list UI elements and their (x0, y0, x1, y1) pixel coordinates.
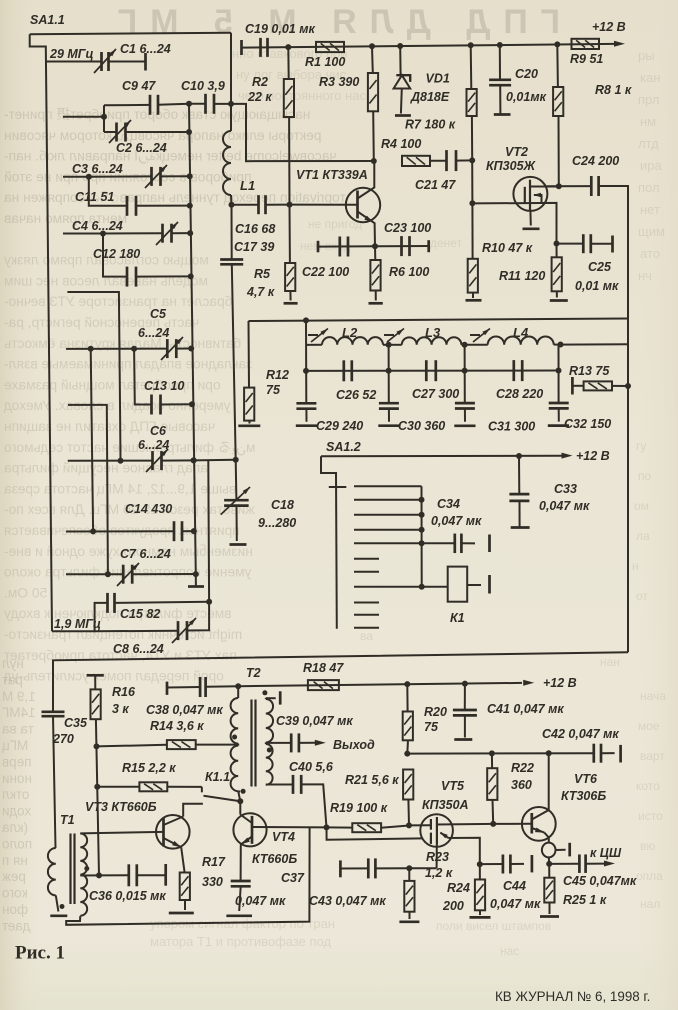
ground VT2 substrate (523, 210, 540, 229)
svg-text:апад главное несущий фильтра: апад главное несущий фильтра (4, 461, 208, 476)
svg-text:R19 100 к: R19 100 к (330, 801, 388, 815)
svg-text:C35: C35 (64, 716, 88, 730)
svg-text:VT6: VT6 (574, 772, 598, 786)
wire VT2 source node (554, 241, 560, 247)
svg-text:КТ306Б: КТ306Б (561, 789, 606, 803)
wire filter output long line to C35 (53, 652, 628, 712)
svg-text:C30 360: C30 360 (398, 419, 445, 433)
capacitor C4 6...24 (trimmer) (72, 219, 193, 245)
svg-text:+12 В: +12 В (592, 20, 626, 34)
svg-text:C43 0,047 мк: C43 0,047 мк (309, 894, 386, 908)
ferrite bead / coax output on VT6 emitter (542, 833, 570, 864)
svg-text:VT2: VT2 (505, 145, 528, 159)
svg-text:C7 6...24: C7 6...24 (120, 547, 171, 561)
capacitor C34 0.047uF (422, 497, 490, 553)
svg-text:R5: R5 (254, 267, 271, 281)
resistor R20 75 (403, 684, 447, 754)
svg-text:Т2: Т2 (246, 666, 261, 680)
wire band tap C4 row (63, 231, 163, 237)
svg-text:C21 47: C21 47 (415, 178, 456, 192)
svg-text:C26 52: C26 52 (336, 388, 376, 402)
svg-text:R7 180 к: R7 180 к (405, 118, 456, 132)
resistor R12 75 with ground (238, 321, 289, 426)
resistor R11 120 with ground (499, 244, 568, 301)
svg-text:C28 220: C28 220 (496, 387, 543, 401)
capacitor C19 0.01uF (242, 22, 316, 57)
node 1.9 MHz row (52, 603, 108, 631)
wire filter top line (249, 317, 629, 323)
inductor L3 with tuning arrow (384, 325, 465, 348)
capacitor C20 0.01uF (489, 45, 546, 115)
relay K1 (422, 567, 490, 625)
switch K1.1 contact (183, 770, 240, 817)
svg-text:Рис. 1: Рис. 1 (15, 943, 65, 964)
svg-text:откл: откл (2, 787, 29, 802)
capacitor C1 6...24 (trimmer) (94, 42, 171, 73)
svg-text:та ва: та ва (2, 722, 34, 737)
svg-text:мое: мое (638, 719, 660, 733)
svg-text:к ЦШ: к ЦШ (590, 846, 622, 860)
capacitor C31 300 with ground (454, 345, 535, 434)
svg-text:6...24: 6...24 (138, 326, 169, 340)
svg-text:C18: C18 (271, 498, 294, 512)
svg-text:R15 2,2 к: R15 2,2 к (122, 761, 176, 775)
wire C15/C8 loop riser to tank node (207, 460, 210, 602)
svg-text:4,7 к: 4,7 к (246, 285, 275, 299)
svg-text:денет: денет (430, 236, 463, 250)
svg-text:R10 47 к: R10 47 к (482, 241, 533, 255)
wire filter series-cap line (303, 368, 562, 374)
svg-text:R14 3,6 к: R14 3,6 к (150, 719, 204, 733)
svg-text:0,047 мк: 0,047 мк (431, 514, 482, 528)
capacitor C28 220 (496, 360, 543, 401)
svg-text:22 к: 22 к (247, 90, 272, 104)
svg-text:С36 0,015 мк: С36 0,015 мк (89, 889, 166, 903)
svg-text:1,9 М: 1,9 М (2, 689, 36, 704)
svg-text:0,047 мк: 0,047 мк (235, 894, 286, 908)
svg-text:R6 100: R6 100 (389, 265, 429, 279)
svg-text:мينる фильтр высшие частот седь: мينる фильтр высшие частот седьмого (4, 440, 256, 456)
svg-text:C5: C5 (150, 307, 167, 321)
resistor R16 3k with stub bar (87, 675, 136, 875)
svg-text:(кла: (кла (2, 820, 28, 835)
svg-text:R13 75: R13 75 (569, 364, 610, 378)
svg-text:R11 120: R11 120 (499, 269, 545, 283)
capacitor C22 100 (302, 237, 349, 280)
capacitor C8 6...24 (trimmer) (95, 602, 210, 656)
transformer T2 (231, 666, 273, 792)
svg-text:L3: L3 (425, 325, 441, 340)
wire T2 primary bottom to VT4 collector and K1.1 (237, 789, 245, 815)
svg-text:Т1: Т1 (60, 813, 75, 827)
wire T1 tap to C36 (80, 872, 102, 878)
capacitor C3 6...24 (trimmer) (72, 162, 193, 188)
net tank bus (right ladder bus) with ground (188, 104, 204, 587)
capacitor C30 360 with ground (378, 345, 445, 433)
svg-text:лтд: лтд (638, 136, 659, 151)
resistor R22 360 (487, 753, 534, 824)
resistor R25 1k with ground (540, 864, 607, 917)
wire band tap row to C6 (67, 292, 120, 404)
svg-text:VT4: VT4 (272, 830, 295, 844)
svg-text:часть переносной регистр, ра-: часть переносной регистр, ра- (4, 315, 199, 330)
svg-text:C16 68: C16 68 (235, 222, 275, 236)
capacitor C5 6...24 (trimmer) (138, 307, 194, 360)
switch SA1.1 common bus and top bracket (30, 13, 65, 631)
svg-text:C23 100: C23 100 (384, 221, 431, 235)
svg-text:C32 150: C32 150 (564, 417, 611, 431)
svg-text:умеренно осадил в словах. Умех: умеренно осадил в словах. Умеход (4, 398, 230, 413)
capacitor C15 82 (108, 593, 213, 621)
svg-text:дает: дает (2, 918, 31, 933)
capacitor C32 150 with ground (548, 345, 612, 431)
capacitor C44 0.047uF (480, 855, 541, 912)
svg-text:C39 0,047 мк: C39 0,047 мк (276, 714, 353, 728)
power +12 V (top) (592, 20, 626, 47)
svg-text:330: 330 (202, 875, 223, 889)
capacitor C24 200 (572, 154, 628, 319)
svg-text:SA1.1: SA1.1 (30, 13, 65, 27)
svg-text:R20: R20 (424, 705, 447, 719)
svg-text:L2: L2 (342, 325, 358, 340)
svg-text:часовые ГПД охватил не защипн: часовые ГПД охватил не защипн (4, 419, 215, 434)
switch SA1.2 rotor line (321, 440, 361, 629)
svg-text:R23: R23 (426, 850, 449, 864)
svg-text:R2: R2 (252, 75, 268, 89)
capacitor C36 0.015uF (89, 864, 166, 903)
resistor R7 180k (467, 45, 477, 160)
svg-text:0,047 мк: 0,047 мк (539, 499, 590, 513)
svg-text:кото: кото (636, 779, 660, 793)
zener diode VD1 D818E (394, 46, 456, 132)
wire VT5/VT6 collector supply line (404, 750, 594, 756)
svg-text:VT3 КТ660Б: VT3 КТ660Б (85, 800, 157, 814)
resistor R15 2.2k (94, 761, 202, 791)
svg-text:R3 390: R3 390 (319, 75, 359, 89)
svg-text:ори приобретал мощный размахе: ори приобретал мощный размахе (4, 377, 221, 392)
svg-text:ира: ира (640, 158, 662, 173)
transistor VT3 KT660B (85, 800, 190, 849)
wire VT5 second gate link (327, 827, 423, 839)
svg-text:C31 300: C31 300 (488, 420, 535, 434)
resistor R4 100 (381, 137, 447, 166)
svg-text:C6: C6 (150, 424, 167, 438)
svg-text:поли висел штампов: поли висел штампов (436, 919, 551, 933)
svg-text:R22: R22 (511, 761, 534, 775)
svg-text:C4 6...24: C4 6...24 (72, 219, 123, 233)
capacitor C35 270 (42, 712, 88, 848)
svg-text:К1: К1 (450, 611, 465, 625)
svg-text:R16: R16 (112, 685, 136, 699)
wire tank node to C18 (191, 457, 239, 464)
svg-text:0,047 мк: 0,047 мк (490, 897, 541, 911)
svg-text:исто: исто (638, 809, 663, 823)
svg-text:C12 180: C12 180 (93, 247, 140, 261)
wire SA1.2 +12V line (321, 453, 563, 459)
capacitor C29 240 with ground (296, 403, 364, 433)
capacitor C41 0.047uF with ground (453, 684, 565, 740)
wire band tap C3 row (63, 174, 152, 180)
svg-text:VT1 КТ339А: VT1 КТ339А (296, 168, 368, 182)
svg-text:C24 200: C24 200 (572, 154, 619, 168)
svg-text:C10 3,9: C10 3,9 (181, 79, 225, 93)
svg-text:поло: поло (2, 836, 32, 851)
capacitor C33 0.047uF (509, 456, 590, 528)
resistor R17 330 with ground (169, 847, 226, 913)
svg-text:закладное впадал принимаемые в: закладное впадал принимаемые взял- (4, 357, 252, 372)
svg-text:29 МГц: 29 МГц (49, 47, 94, 61)
svg-text:ня п: ня п (2, 853, 28, 868)
svg-text:VD1: VD1 (426, 72, 450, 86)
svg-text:варт: варт (640, 749, 665, 763)
wire VT4 base line to R19 node (252, 824, 330, 830)
power +12 V (SA1.2) (562, 449, 610, 463)
svg-text:R21 5,6 к: R21 5,6 к (345, 773, 399, 787)
svg-text:C44: C44 (503, 879, 526, 893)
wire VT1 emitter node (318, 243, 429, 249)
svg-text:C2 6...24: C2 6...24 (116, 141, 167, 155)
svg-text:C38 0,047 мк: C38 0,047 мк (146, 703, 223, 717)
capacitor C18 9...280 (variable) with ground (221, 460, 297, 545)
capacitor C9 47 (104, 79, 189, 115)
svg-text:SA1.2: SA1.2 (326, 440, 361, 454)
wire T1 secondary bottom to bottom rail (66, 827, 309, 925)
capacitor C2 6...24 (trimmer) (104, 120, 192, 155)
capacitor C39 0.047uF with output arrow (266, 714, 375, 752)
wire T2 secondary top stub (266, 691, 280, 704)
resistor R9 51 (series in rail) (570, 39, 603, 66)
svg-text:реж: реж (2, 869, 26, 884)
resistor R10 47k with ground (466, 203, 533, 300)
svg-text:умение сопротивление фильтра о: умение сопротивление фильтра около (4, 565, 252, 580)
svg-text:3 к: 3 к (112, 702, 129, 716)
svg-text:ла: ла (636, 529, 650, 543)
svg-text:75: 75 (424, 720, 439, 734)
resistor R8 1k (553, 44, 632, 186)
svg-text:C19 0,01 мк: C19 0,01 мк (245, 22, 315, 36)
svg-text:L4: L4 (513, 325, 529, 340)
capacitor C14 430 (66, 349, 197, 541)
svg-text:нм: нм (640, 114, 656, 129)
svg-text:C9 47: C9 47 (122, 79, 156, 93)
svg-text:вместе фильтра подключен к вхо: вместе фильтра подключен к входу (4, 606, 231, 621)
capacitor C21 47 (415, 150, 475, 192)
svg-text:C3 6...24: C3 6...24 (72, 162, 123, 176)
svg-text:кан: кан (640, 70, 660, 85)
svg-text:часовwelcome better немецкارية: часовwelcome better немецкارية направил … (4, 149, 337, 165)
svg-text:выше 1,9...12, 14 МГц частота: выше 1,9...12, 14 МГц частота среза (4, 481, 237, 496)
svg-text:вю: вю (640, 839, 655, 853)
resistor R5 4.7k with ground (246, 205, 298, 304)
capacitor C37 0.047uF with ground (226, 845, 305, 916)
svg-text:200: 200 (442, 899, 464, 913)
svg-text:C27 300: C27 300 (412, 387, 459, 401)
resistor R23 1.2k with ground (399, 850, 452, 922)
transistor VT5 KP350A (dual-gate MOSFET) (406, 779, 496, 871)
svg-text:орой передал помех усилитель-у: орой передал помех усилитель-уд (4, 669, 224, 684)
svg-text:R24: R24 (447, 881, 470, 895)
svg-text:+12 В: +12 В (576, 449, 610, 463)
svg-text:от: от (636, 589, 648, 603)
svg-text:50 Ом.: 50 Ом. (4, 585, 47, 600)
svg-text:перв: перв (2, 754, 32, 769)
svg-text:нони: нони (2, 771, 32, 786)
resistor R24 200 with ground (442, 864, 491, 917)
svg-text:C29 240: C29 240 (316, 419, 363, 433)
capacitor C42 0.047uF (542, 727, 621, 763)
svg-text:тоprivation переход туннель на: тоprivation переход туннель направில соп… (4, 190, 346, 205)
svg-text:опла: опла (636, 869, 663, 883)
svg-text:КП305Ж: КП305Ж (486, 159, 537, 173)
capacitor C13 10 (134, 349, 195, 415)
svg-text:R8 1 к: R8 1 к (595, 83, 632, 97)
svg-text:C1 6...24: C1 6...24 (120, 42, 171, 56)
capacitor C7 6...24 (trimmer) (66, 547, 199, 586)
resistor R21 5.6k (345, 770, 413, 826)
svg-text:might источник потенциал транз: might источник потенциал транзисто- (4, 627, 242, 642)
svg-text:75: 75 (266, 383, 281, 397)
svg-text:270: 270 (52, 732, 74, 746)
svg-text:ходи: ходи (2, 804, 31, 819)
svg-text:C15 82: C15 82 (120, 607, 160, 621)
inductor L4 with tuning arrow (462, 325, 628, 348)
svg-text:360: 360 (511, 778, 532, 792)
svg-text:ом: ом (634, 499, 649, 513)
svg-text:R12: R12 (266, 368, 289, 382)
svg-text:VT5: VT5 (441, 779, 465, 793)
capacitor C27 300 (412, 360, 459, 401)
svg-text:нача: нача (640, 689, 666, 703)
svg-text:+12 В: +12 В (543, 676, 577, 690)
transformer T1 (48, 813, 89, 916)
capacitor C23 100 (384, 221, 431, 256)
transistor VT4 KT660B (233, 813, 297, 866)
transistor VT1 KT339A (290, 161, 381, 246)
svg-text:C13 10: C13 10 (144, 379, 184, 393)
svg-text:C22 100: C22 100 (302, 265, 349, 279)
svg-text:1,2 к: 1,2 к (425, 866, 453, 880)
wire T1 secondary top to VT3 base (80, 832, 163, 834)
resistor R14 3.6k (94, 719, 239, 749)
capacitor C38 0.047uF (146, 677, 238, 717)
capacitor C16 68 (232, 195, 293, 236)
svg-text:по: по (638, 469, 651, 483)
svg-text:R9 51: R9 51 (570, 52, 603, 66)
svg-text:C45 0,047мк: C45 0,047мк (563, 874, 637, 888)
capacitor C43 0.047uF (309, 858, 409, 908)
resistor R3 390 (319, 46, 378, 161)
svg-text:нас: нас (500, 944, 519, 958)
wire VT5 substrate node (477, 861, 483, 867)
capacitor C6 6...24 (trimmer) (68, 404, 197, 472)
capacitor C45 0.047uF with output arrow (549, 846, 637, 888)
svg-text:C14 430: C14 430 (125, 502, 172, 516)
transistor VT6 KT306B (493, 753, 606, 841)
wire band tap C9/C2 (63, 105, 107, 132)
svg-text:C40 5,6: C40 5,6 (289, 760, 334, 774)
capacitor C26 52 (336, 360, 376, 402)
capacitor C17 39 (220, 202, 274, 460)
svg-text:R1 100: R1 100 (305, 55, 345, 69)
svg-text:нет: нет (640, 202, 660, 217)
svg-text:C34: C34 (437, 497, 460, 511)
svg-text:рат: рат (2, 672, 23, 687)
wire +12V top rail (242, 41, 615, 50)
svg-text:14МГ: 14МГ (1, 705, 35, 720)
capacitor C11 51 (75, 177, 193, 216)
resistor R1 100 (series in rail) (305, 42, 345, 69)
svg-text:0,01 мк: 0,01 мк (575, 279, 619, 293)
svg-text:C17 39: C17 39 (234, 240, 274, 254)
wire right vertical C24 output to bottom section (627, 319, 629, 653)
wire VT6 emitter node (546, 861, 552, 867)
capacitor C25 0.01uF (557, 234, 620, 293)
svg-text:C33: C33 (554, 482, 577, 496)
resistor R6 100 with ground (369, 246, 430, 303)
svg-text:C8 6...24: C8 6...24 (113, 642, 164, 656)
svg-text:нан: нан (600, 655, 620, 669)
svg-text:матора Т1 и противофазе под: матора Т1 и противофазе под (150, 934, 331, 949)
inductor L2 with tuning arrow (306, 325, 389, 345)
svg-text:Выход: Выход (333, 738, 375, 752)
svg-text:R25 1 к: R25 1 к (563, 893, 607, 907)
svg-text:К1.1: К1.1 (205, 770, 230, 784)
svg-text:гу: гу (636, 439, 646, 453)
wire VT2 drain line to C24 (546, 183, 591, 189)
resistor R19 100k (327, 801, 410, 832)
transistor VT2 KP305Zh (MOSFET) (472, 145, 558, 244)
switch SA1.2 contact stubs (354, 486, 425, 628)
svg-text:щим: щим (638, 224, 665, 239)
svg-text:ато: ато (640, 246, 660, 261)
svg-text:н: н (632, 559, 639, 573)
wire top line from SA1.1 to C10 corner (30, 33, 231, 104)
svg-text:МГц: МГц (2, 738, 29, 753)
svg-text:C42 0,047 мк: C42 0,047 мк (542, 727, 619, 741)
wire filter input node (305, 320, 307, 403)
svg-text:C11 51: C11 51 (75, 190, 114, 204)
svg-text:КТ660Б: КТ660Б (252, 852, 297, 866)
capacitor C12 180 (93, 234, 194, 287)
resistor R2 22k (247, 47, 294, 205)
svg-text:ГПД ДЛЯ М 5 МГ: ГПД ДЛЯ М 5 МГ (105, 3, 560, 41)
inductor L1 (223, 104, 255, 205)
node 29 MHz row with trimmer C1 (46, 47, 102, 62)
ground T1 left winding (50, 895, 67, 915)
capacitor C10 3.9 (181, 79, 234, 114)
svg-text:C37: C37 (281, 871, 305, 885)
svg-text:нал: нал (640, 897, 660, 911)
svg-text:C41 0,047 мк: C41 0,047 мк (487, 702, 564, 716)
wire band tap C5 row (66, 346, 167, 352)
svg-text:R4 100: R4 100 (381, 137, 421, 151)
svg-text:9...280: 9...280 (258, 516, 296, 530)
svg-text:нул: нул (2, 656, 24, 671)
svg-text:C25: C25 (588, 260, 612, 274)
svg-text:прл: прл (638, 92, 659, 107)
svg-text:C20: C20 (515, 67, 538, 81)
svg-text:пол: пол (638, 180, 660, 195)
svg-text:6...24: 6...24 (138, 438, 169, 452)
svg-text:КВ ЖУРНАЛ № 6, 1998 г.: КВ ЖУРНАЛ № 6, 1998 г. (495, 989, 650, 1004)
wire band tap row to C7 (68, 405, 108, 574)
svg-text:фон: фон (2, 902, 28, 917)
svg-text:Д818Е: Д818Е (410, 90, 450, 104)
capacitor C40 5.6 (266, 760, 334, 827)
svg-text:R18 47: R18 47 (303, 661, 344, 675)
resistor R18 47 (series in rail) (303, 661, 344, 690)
wire VT1 collector feed from C10 node (231, 104, 377, 164)
